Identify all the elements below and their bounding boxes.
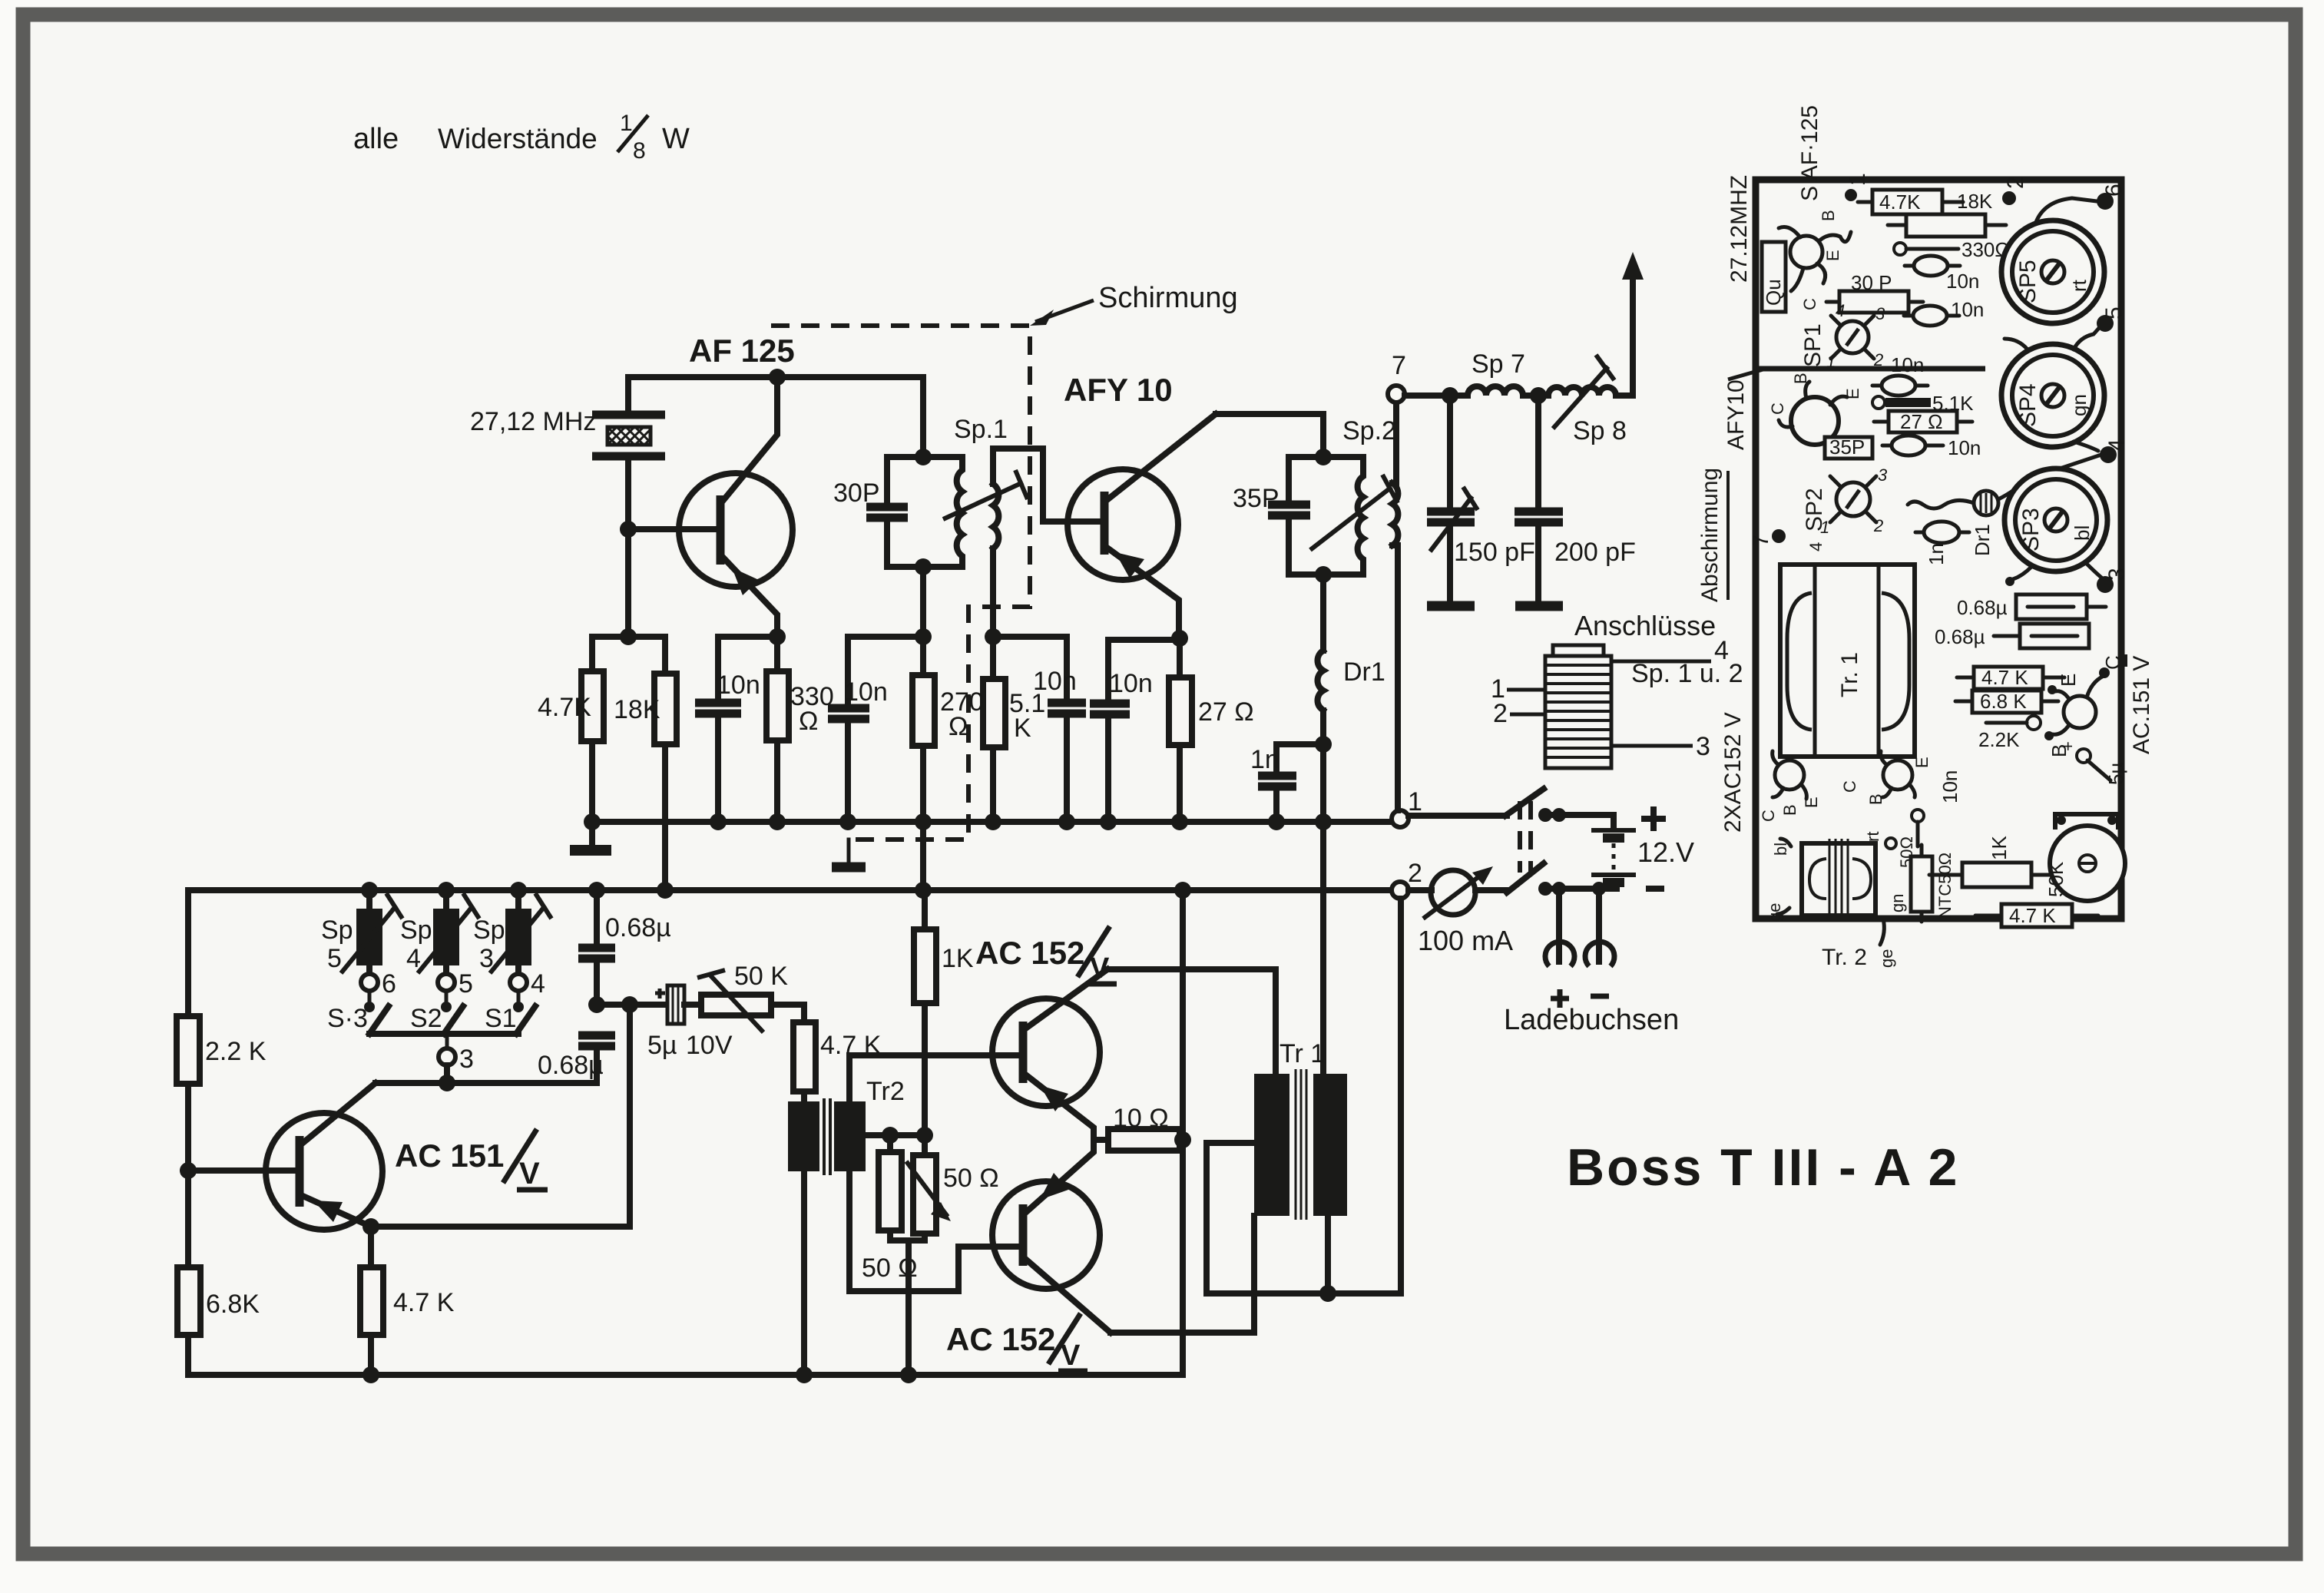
svg-text:4.7 K: 4.7 K: [393, 1288, 455, 1317]
node base junction: [620, 521, 637, 538]
svg-text:2XAC152 V: 2XAC152 V: [1720, 712, 1746, 833]
resistor 4.7K emitter: [360, 1267, 383, 1335]
capacitor 0.68u upper: [588, 882, 605, 899]
contact 5: [443, 965, 449, 975]
pad 7 left: [1772, 529, 1786, 543]
transistor AC151/V: [266, 1083, 382, 1230]
svg-text:4: 4: [406, 944, 421, 973]
dashed shield box Schirmung: [771, 326, 1030, 840]
switch common bar: [369, 1031, 518, 1037]
PCB board outline: [1756, 180, 2121, 919]
label battery plus: [1641, 806, 1666, 831]
resistor 330 ohm emitter: [774, 637, 780, 671]
svg-text:10n: 10n: [1946, 270, 1979, 293]
terminal 2: [1392, 882, 1409, 899]
wire Tr2 secondary top to AC152 base: [849, 1055, 1021, 1101]
capacitor 10n AFY10 base: [1048, 699, 1086, 707]
coil winding drawing Sp. 1 u. 2: [1545, 645, 1611, 768]
wire rail to tank Sp1: [920, 377, 926, 457]
svg-text:7: 7: [1748, 534, 1773, 547]
svg-text:S·3: S·3: [327, 1004, 368, 1033]
wire crystal to base node: [625, 456, 631, 529]
capacitor 10n on board bottom: [1912, 810, 1924, 822]
resistor 27 ohm on board: [1889, 411, 1957, 432]
svg-text:AC 152: AC 152: [975, 935, 1084, 971]
svg-text:10V: 10V: [686, 1031, 733, 1060]
wire 4.7K to Tr2: [801, 1091, 807, 1101]
svg-text:10n: 10n: [1938, 770, 1961, 803]
transformer Tr2: [788, 1077, 905, 1175]
label 50 ohm small rotated: [1885, 838, 1896, 849]
resistor 4.7K on board: [1872, 190, 1942, 214]
svg-text:0.68µ: 0.68µ: [1957, 596, 2008, 619]
pad 4: [2100, 446, 2117, 463]
svg-text:3: 3: [1696, 732, 1710, 761]
transformer Tr.1 drawing on board: [1780, 565, 1915, 757]
svg-text:B: B: [1866, 793, 1885, 805]
crystal Q1 27.12 MHz: [592, 415, 665, 456]
capacitor 0.68u film a: [2016, 594, 2087, 619]
inductor Sp.1 secondary: [993, 484, 998, 548]
wire Sp.2 secondary top to terminal 7: [1392, 402, 1396, 483]
svg-text:Sp: Sp: [400, 916, 432, 945]
wire 50 ohm bottoms to rail: [890, 1237, 925, 1244]
resistor 2.2K: [177, 1016, 200, 1084]
trimmer SP2: [1802, 465, 1888, 551]
node AC151 emitter: [363, 1218, 379, 1235]
wire shield to ground: [847, 840, 851, 862]
svg-text:18K: 18K: [1957, 190, 1993, 213]
svg-text:3: 3: [1878, 465, 1888, 485]
inductor Sp 8: [1523, 392, 1548, 399]
wire bridge to 10n: [993, 637, 1067, 699]
svg-text:3: 3: [2104, 568, 2130, 581]
svg-text:27 Ω: 27 Ω: [1198, 697, 1254, 727]
trimmer SP3: [2005, 469, 2107, 586]
capacitor 10n AFY10 emitter: [1090, 700, 1130, 708]
wire rail2 left branch down: [185, 890, 191, 1016]
svg-text:C: C: [1840, 780, 1859, 793]
svg-text:W: W: [662, 123, 690, 155]
trimmer 30P on board: [1839, 291, 1909, 313]
switch S3: [369, 1006, 389, 1034]
choke Dr1 on board: [1908, 453, 2106, 556]
wire terminal1 to switch: [1409, 813, 1507, 819]
label Schirmung with pointer: [1030, 282, 1238, 326]
svg-text:Sp: Sp: [321, 916, 353, 945]
switch S2: [444, 1006, 463, 1034]
svg-text:100 mA: 100 mA: [1418, 925, 1513, 956]
svg-text:E: E: [1843, 388, 1862, 399]
node top rail junction: [769, 369, 786, 386]
wire Tr2 primary bottom to rail: [801, 1171, 807, 1375]
wire tank bottom down: [920, 567, 926, 637]
svg-text:1n: 1n: [1250, 745, 1280, 774]
arrow variable coupling Sp.1: [943, 470, 1028, 519]
coil Sp4 tuning: [438, 882, 455, 899]
rail2 minus bus: [188, 887, 1392, 893]
svg-text:AF 125: AF 125: [689, 333, 795, 369]
potentiometer 50K on board: [2044, 814, 2125, 901]
svg-text:Tr. 1: Tr. 1: [1837, 652, 1862, 697]
capacitor 200pF: [1535, 396, 1541, 508]
svg-text:Sp.2: Sp.2: [1342, 416, 1396, 445]
node 270 top: [915, 628, 932, 645]
capacitor 10n second (330 side): [848, 637, 923, 704]
svg-text:SP1: SP1: [1800, 323, 1826, 367]
wire tank bottom to Dr1: [1320, 575, 1326, 651]
resistor 6.8K on board: [1972, 691, 2041, 713]
wire base: [628, 526, 719, 532]
svg-text:0.68µ: 0.68µ: [605, 913, 671, 942]
inductor Dr1 choke: [1317, 651, 1323, 710]
svg-text:Sp. 1 u. 2: Sp. 1 u. 2: [1631, 659, 1743, 688]
charging jack minus: [1596, 889, 1602, 962]
svg-text:30 P: 30 P: [1851, 271, 1892, 294]
capacitor 1n: [1276, 744, 1323, 772]
svg-text:2.2 K: 2.2 K: [205, 1037, 266, 1066]
svg-text:Tr. 2: Tr. 2: [1822, 945, 1867, 970]
capacitor 0.68u film b: [2020, 624, 2089, 648]
svg-text:2: 2: [1873, 350, 1883, 369]
svg-text:Schirmung: Schirmung: [1098, 282, 1238, 314]
node emitter junction: [769, 628, 786, 645]
terminal 1: [1392, 810, 1409, 827]
contact 4: [515, 965, 521, 975]
wire 10n to rail1: [715, 714, 721, 822]
svg-text:4: 4: [1806, 542, 1826, 551]
svg-text:3: 3: [1875, 304, 1885, 323]
svg-text:27,12 MHz: 27,12 MHz: [470, 407, 596, 436]
svg-text:Anschlüsse: Anschlüsse: [1574, 610, 1716, 641]
svg-text:35P: 35P: [1233, 484, 1280, 513]
resistor 4.7K base divider: [581, 671, 604, 741]
svg-text:10n: 10n: [1109, 669, 1153, 698]
contact 6: [366, 965, 372, 975]
svg-text:4: 4: [1836, 301, 1845, 320]
transistor AC151 on board: [2064, 696, 2096, 728]
svg-text:1: 1: [1826, 352, 1836, 371]
svg-text:5: 5: [2101, 306, 2127, 320]
svg-text:rt: rt: [2067, 279, 2091, 292]
node 4.7K rail: [584, 813, 601, 830]
svg-text:Abschirmung: Abschirmung: [1697, 468, 1723, 602]
wire divider bridge: [592, 634, 665, 640]
wire Dr1 node down to Tr1 secondary: [1320, 744, 1326, 1074]
trimmer 35P on board: [1825, 437, 1872, 459]
wire collector lower to Tr1: [1111, 1216, 1254, 1333]
wire antenna line: [1405, 392, 1468, 399]
resistor 18K base divider: [654, 674, 677, 744]
transistor AC152 a on board: [1775, 760, 1804, 790]
svg-text:5µ: 5µ: [2104, 763, 2127, 785]
wire switch to battery minus: [1545, 886, 1617, 892]
svg-text:SP4: SP4: [2015, 383, 2041, 427]
svg-text:E: E: [1802, 796, 1821, 808]
svg-text:SP3: SP3: [2018, 508, 2044, 551]
resistor 330 ohm on board: [1894, 243, 1906, 255]
svg-text:AFY10: AFY10: [1723, 379, 1749, 450]
resistor 1K on board: [1962, 863, 2031, 887]
transistor AFY10 on board: [1791, 397, 1839, 445]
svg-text:1: 1: [620, 111, 633, 136]
svg-text:Tr2: Tr2: [866, 1077, 905, 1106]
wire emitter bridge to 10n: [718, 637, 777, 699]
svg-text:bl: bl: [2071, 525, 2094, 541]
wire Sp.2 secondary bottom to terminal 1: [1392, 545, 1398, 810]
svg-text:27.12MHZ: 27.12MHZ: [1726, 175, 1752, 283]
svg-text:3: 3: [459, 1045, 474, 1074]
svg-text:4.7 K: 4.7 K: [2009, 904, 2056, 927]
rail1 plus bus: [590, 819, 1392, 825]
potentiometer 50 ohm: [922, 1135, 928, 1155]
trimmer SP5: [2001, 198, 2104, 323]
ground bar shield: [832, 863, 866, 873]
svg-text:Qu: Qu: [1762, 279, 1785, 306]
wire emitter bridge: [1108, 640, 1180, 700]
svg-text:Tr 1: Tr 1: [1280, 1039, 1325, 1068]
pad 6: [2097, 193, 2114, 210]
svg-text:E: E: [2057, 674, 2080, 687]
switch upper blade: [1505, 789, 1544, 816]
resistor NTC50 on board: [1911, 856, 1932, 912]
svg-text:10n: 10n: [844, 677, 888, 707]
svg-text:1K: 1K: [942, 944, 974, 973]
note: alle Widerstaende 1/8 W: [353, 111, 690, 164]
svg-text:gn: gn: [1888, 894, 1907, 912]
resistor 6.8K: [177, 1267, 200, 1335]
capacitor 5u on board: [2077, 749, 2091, 763]
svg-text:B: B: [1819, 210, 1838, 221]
antenna riser and arrow: [1616, 277, 1633, 396]
node 0.68u mid: [588, 996, 605, 1013]
wire 2.2K to base node: [185, 1084, 191, 1171]
svg-text:30P: 30P: [833, 479, 880, 508]
resistor 5.1K: [990, 637, 996, 679]
PCB internal shield line: [1756, 366, 1985, 372]
wire crystal branch: [625, 377, 631, 413]
node Sp1 secondary to 5.1K: [985, 628, 1001, 645]
svg-text:2: 2: [2003, 176, 2028, 189]
svg-text:Dr1: Dr1: [1343, 657, 1385, 687]
svg-text:7: 7: [1392, 351, 1406, 380]
svg-text:Sp 7: Sp 7: [1472, 349, 1525, 379]
svg-text:V: V: [519, 1157, 540, 1191]
svg-text:50 Ω: 50 Ω: [943, 1164, 999, 1193]
meter 100mA: [1409, 866, 1513, 956]
capacitor 10n disc d: [1892, 436, 1925, 455]
switch S1: [516, 1006, 535, 1034]
resistor 18K on board: [1906, 214, 1985, 237]
svg-text:Widerstände: Widerstände: [438, 123, 598, 154]
svg-text:AFY 10: AFY 10: [1064, 372, 1173, 408]
capacitor 10n emitter bypass: [695, 703, 741, 714]
terminal 7 antenna tap: [1388, 386, 1405, 402]
svg-text:B: B: [1780, 804, 1799, 816]
trimmer SP4: [2001, 327, 2104, 451]
transistor AF125: [679, 377, 793, 637]
svg-text:27 Ω: 27 Ω: [1900, 410, 1943, 433]
svg-text:C: C: [1800, 298, 1819, 310]
capacitor 30P: [866, 503, 908, 512]
inductor Sp.2 secondary: [1392, 483, 1398, 545]
label battery minus: [1646, 886, 1664, 892]
svg-text:1n: 1n: [1925, 543, 1948, 565]
wire Dr1 to 1n node: [1320, 710, 1326, 744]
svg-text:E: E: [1823, 250, 1842, 261]
svg-text:1K: 1K: [1988, 836, 2011, 860]
svg-text:5µ: 5µ: [647, 1031, 677, 1060]
svg-text:6: 6: [382, 969, 396, 999]
resistor 4.7K AF drive: [793, 1022, 816, 1091]
node tank bottom: [915, 558, 932, 575]
resistor 10 ohm: [1094, 1137, 1108, 1143]
svg-text:S AF·125: S AF·125: [1797, 105, 1822, 201]
resistor 4.7K on board bottom: [2001, 904, 2072, 927]
svg-text:35P: 35P: [1829, 436, 1865, 459]
ground bar under rail: [570, 845, 611, 856]
svg-text:10n: 10n: [1951, 298, 1984, 321]
wire 18K to minus rail: [662, 744, 668, 890]
node AFY10 emitter: [1171, 630, 1188, 647]
wire Tr1 secondary bottom: [1325, 1216, 1331, 1293]
transistor AF125 on board: [1790, 236, 1822, 268]
transformer Tr.2 drawing on board: [1802, 839, 1875, 920]
resistor 2.2K on board: [2027, 716, 2041, 730]
wire Sp.1 secondary hat to AFY10 base: [993, 449, 1103, 522]
pointer 4: [1611, 660, 1711, 664]
svg-text:Sp: Sp: [473, 916, 505, 945]
svg-text:5: 5: [459, 969, 473, 999]
wire Tr2 secondary bottom to AC152 base lower: [849, 1171, 1021, 1291]
svg-text:150 pF: 150 pF: [1454, 538, 1535, 567]
resistor 270 ohm: [920, 637, 926, 675]
svg-text:10n: 10n: [1891, 353, 1924, 376]
wire mid node to 5u: [597, 1002, 667, 1008]
tank circuit Sp.2 / 35P: [1289, 454, 1363, 460]
pad 3: [2097, 576, 2114, 593]
svg-text:C: C: [1759, 810, 1778, 822]
svg-text:18K: 18K: [614, 695, 660, 724]
resistor 4.7K on board lower: [1974, 667, 2043, 689]
svg-text:Ω: Ω: [948, 712, 968, 741]
resistor 1K: [922, 890, 928, 929]
contact 3 common: [445, 1034, 449, 1048]
wire emitter run: [371, 1005, 630, 1227]
svg-text:6.8 K: 6.8 K: [1980, 690, 2027, 713]
capacitor 0.68u lower: [578, 1032, 615, 1040]
wire collector upper to Tr1: [1107, 969, 1276, 1074]
svg-text:12.V: 12.V: [1637, 836, 1694, 868]
node divider: [620, 628, 637, 645]
svg-text:6: 6: [2101, 184, 2127, 197]
svg-text:50K: 50K: [2044, 861, 2067, 897]
svg-text:ge: ge: [1877, 949, 1896, 968]
crystal Qu on board: [1762, 242, 1786, 312]
svg-text:4.7K: 4.7K: [1879, 190, 1921, 214]
transformer Tr1: [1254, 1039, 1347, 1220]
wire Tr1 primary center tap to node 2: [1207, 899, 1401, 1293]
switch lower blade: [1475, 887, 1507, 893]
svg-text:AC 152: AC 152: [946, 1321, 1055, 1357]
capacitor 5u electrolytic: [647, 985, 733, 1060]
svg-text:S2: S2: [410, 1004, 442, 1033]
transistor AC152 upper: [992, 969, 1107, 1140]
svg-text:Sp 8: Sp 8: [1573, 416, 1627, 445]
wire base node down: [185, 1171, 191, 1267]
svg-text:NTC50Ω: NTC50Ω: [1935, 853, 1955, 919]
capacitor 1n on board: [1924, 522, 1959, 543]
transistor AC152 lower: [992, 1140, 1111, 1333]
svg-text:8: 8: [633, 138, 646, 164]
svg-text:SP5: SP5: [2015, 260, 2041, 303]
arrow variable Sp 8: [1553, 366, 1608, 429]
svg-text:AC.151 V: AC.151 V: [2129, 656, 2154, 754]
wire collector top rail: [628, 374, 923, 380]
svg-text:C: C: [2101, 655, 2124, 670]
capacitor 10n disc c: [1882, 376, 1915, 396]
wire bottom rail to rail2 riser: [1180, 890, 1186, 1375]
ganged switch dashes: [1518, 801, 1522, 873]
bottom rail minus: [188, 1372, 1183, 1378]
wire base AC151: [188, 1167, 298, 1174]
capacitor 10n disc b: [1913, 306, 1947, 326]
svg-text:2: 2: [1493, 699, 1508, 728]
capacitor 10n disc a: [1914, 256, 1948, 276]
svg-text:C: C: [1768, 402, 1787, 415]
arrow variable coupling Sp.2: [1310, 487, 1392, 550]
svg-text:rt: rt: [1863, 832, 1882, 842]
collector line AC151: [376, 1080, 597, 1086]
resistor 50 ohm fixed: [887, 1135, 893, 1152]
pad 5: [2097, 315, 2114, 332]
inductor Sp 7: [1468, 386, 1523, 396]
battery 12V: [1591, 830, 1636, 889]
svg-text:V: V: [1061, 1340, 1081, 1372]
svg-text:S1: S1: [485, 1004, 517, 1033]
svg-text:Ω: Ω: [799, 707, 818, 736]
potentiometer 50K: [684, 1002, 701, 1008]
svg-text:2.2K: 2.2K: [1978, 728, 2020, 751]
capacitor 35P: [1268, 501, 1310, 509]
node 18K rail2: [657, 882, 674, 899]
svg-text:6.8K: 6.8K: [206, 1290, 260, 1319]
svg-text:Sp.1: Sp.1: [954, 415, 1008, 444]
capacitor 150pF variable: [1447, 396, 1453, 508]
svg-text:+: +: [2058, 741, 2077, 751]
wire base divider drop: [625, 529, 631, 637]
svg-text:10 Ω: 10 Ω: [1113, 1104, 1169, 1133]
svg-text:4.7 K: 4.7 K: [1981, 666, 2028, 689]
svg-text:K: K: [1014, 714, 1031, 743]
resistor 5.1K on board: [1872, 396, 1885, 409]
wire 270 down through rails: [920, 746, 926, 890]
node Sp2 tank bottom: [1315, 566, 1332, 583]
svg-text:E: E: [1912, 757, 1932, 768]
svg-text:Ladebuchsen: Ladebuchsen: [1504, 1004, 1679, 1036]
svg-text:4: 4: [2104, 439, 2130, 452]
svg-text:200 pF: 200 pF: [1554, 538, 1636, 567]
wire Tr2 center tap: [866, 1132, 925, 1138]
trimmer SP1: [1800, 301, 1885, 371]
wire AFY10 collector to Sp2 tank: [1216, 414, 1323, 457]
coil Sp5 tuning: [361, 882, 378, 899]
svg-text:B: B: [1791, 373, 1810, 384]
svg-text:4: 4: [531, 969, 545, 999]
charging jack plus: [1556, 889, 1562, 962]
wire 50K to 4.7K: [771, 1005, 804, 1022]
svg-text:Dr1: Dr1: [1971, 524, 1994, 556]
